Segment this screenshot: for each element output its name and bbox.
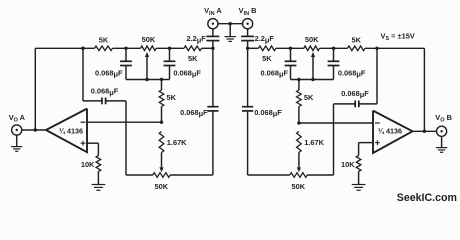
svg-text:50K: 50K <box>155 182 169 191</box>
svg-text:0.068μF: 0.068μF <box>173 68 201 78</box>
svg-text:10K: 10K <box>341 160 355 169</box>
svg-text:50K: 50K <box>305 35 319 44</box>
svg-text:5K: 5K <box>351 35 361 44</box>
svg-text:1.67K: 1.67K <box>304 138 324 147</box>
svg-text:0.068μF: 0.068μF <box>91 87 119 97</box>
svg-text:0.068μF: 0.068μF <box>254 108 282 118</box>
svg-text:0.068μF: 0.068μF <box>260 68 288 78</box>
svg-text:5K: 5K <box>99 35 109 44</box>
svg-text:50K: 50K <box>292 182 306 191</box>
svg-text:2.2μF: 2.2μF <box>186 34 206 44</box>
svg-text:50K: 50K <box>142 35 156 44</box>
svg-text:5K: 5K <box>167 93 177 102</box>
svg-text:¼ 4136: ¼ 4136 <box>59 126 83 135</box>
svg-text:0.068μF: 0.068μF <box>341 89 369 99</box>
svg-text:SeekIC.com: SeekIC.com <box>397 192 457 204</box>
svg-text:0.068μF: 0.068μF <box>180 108 208 118</box>
svg-text:¼ 4136: ¼ 4136 <box>378 126 402 135</box>
svg-text:5K: 5K <box>188 54 198 63</box>
svg-text:0.068μF: 0.068μF <box>95 68 123 78</box>
svg-text:5K: 5K <box>262 54 272 63</box>
svg-text:2.2μF: 2.2μF <box>255 34 275 44</box>
svg-text:5K: 5K <box>304 93 314 102</box>
svg-text:0.068μF: 0.068μF <box>338 68 366 78</box>
svg-text:10K: 10K <box>81 160 95 169</box>
svg-text:1.67K: 1.67K <box>167 138 187 147</box>
